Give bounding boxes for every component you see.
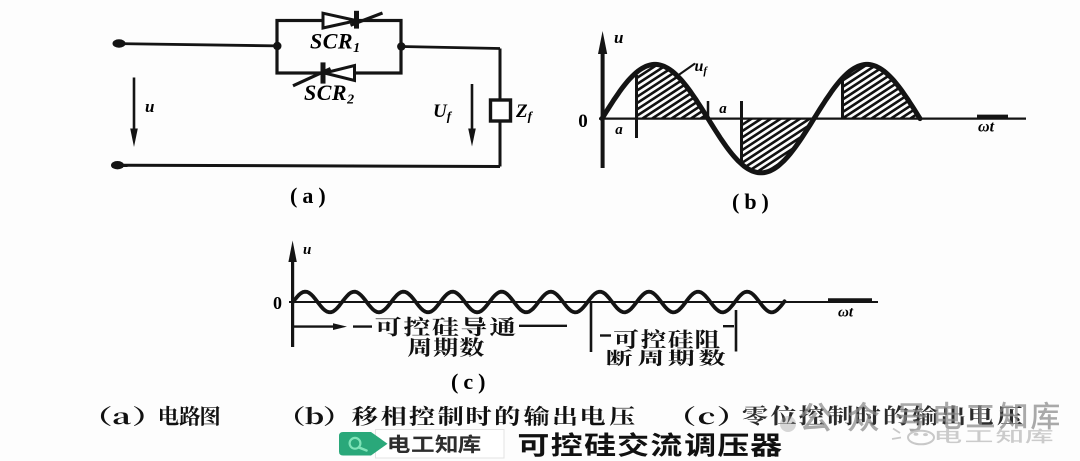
dimension dash left of blocking label [600,334,611,336]
svg-text:(b): (b) [732,189,774,214]
tick boundary right [735,310,738,352]
watermark gongzhonghao row1 [800,402,926,432]
label blocking cycles line2 [607,349,726,366]
watermark face doodle [892,429,934,445]
caption (a) marker [101,406,144,426]
node junction right [397,42,405,50]
svg-text:ωt: ωt [838,305,854,321]
svg-text:u: u [614,28,623,47]
banner green badge with magnifier [339,432,388,456]
banner name box [376,430,505,459]
dimension line conduction span [293,323,567,330]
watermark gray blob left [780,416,796,432]
svg-text:SCR2: SCR2 [304,80,355,108]
terminal top-left [113,39,126,47]
node junction left [273,42,281,50]
tick boundary mid [590,302,593,352]
wire parallel-branch frame [277,21,401,74]
arrow output voltage Uf [468,84,476,147]
arrow source voltage u [130,78,138,148]
firing line alpha 2 [740,101,743,161]
tick zero crossing [707,101,710,120]
axis wt horizontal (c) [289,301,878,303]
label uf with leader [675,58,708,78]
axis end dash (b) [977,115,1008,119]
svg-text:a: a [615,122,623,138]
thyristor SCR1 [323,11,383,29]
thyristor SCR2 [293,62,355,85]
wire bottom return [123,165,500,166]
svg-text:u: u [145,97,154,116]
label blocking cycles line1 [614,329,720,349]
watermark name row2 [937,428,1053,443]
banner name text [389,434,480,453]
axis wt horizontal (b) [599,117,1026,119]
svg-text:ωt: ωt [978,119,995,136]
caption (b) marker [295,406,333,426]
wire top from terminal to left junction [123,44,277,46]
dimension dash right of blocking label [723,325,734,327]
hatched region half-cycle 3 [535,52,1080,205]
sine curve small cycles (c) [293,292,785,313]
terminal bottom-left [111,161,124,169]
hatched region half-cycle 2 [425,52,1058,205]
hatched region half-cycle 1 [335,52,948,205]
caption zero-crossing-control output voltage [743,405,1022,425]
axis end dash (c) [828,298,872,302]
svg-text:(c): (c) [451,369,490,394]
svg-text:a: a [719,101,727,117]
svg-text:0: 0 [273,293,282,313]
wire right junction to load branch [401,47,500,49]
svg-text:SCR1: SCR1 [310,29,361,57]
firing line alpha 1 [635,75,638,138]
svg-text:u: u [303,242,311,258]
caption (c) marker [685,406,728,426]
load impedance Zf [491,100,511,121]
axis u vertical (b) [598,31,607,168]
wire right vertical through load [499,49,502,167]
caption phase-control output voltage [352,406,635,426]
label conduction cycles line2 [408,337,484,357]
axis u vertical (c) [288,241,296,348]
label conduction cycles line1 [376,317,516,337]
caption circuit-diagram [160,406,220,426]
banner title text [519,432,782,457]
watermark name row1 [935,402,1059,430]
svg-text:(a): (a) [290,183,331,208]
sine curve uf (b) [602,64,920,172]
firing line alpha 3 [841,76,844,119]
svg-text:0: 0 [578,111,588,132]
